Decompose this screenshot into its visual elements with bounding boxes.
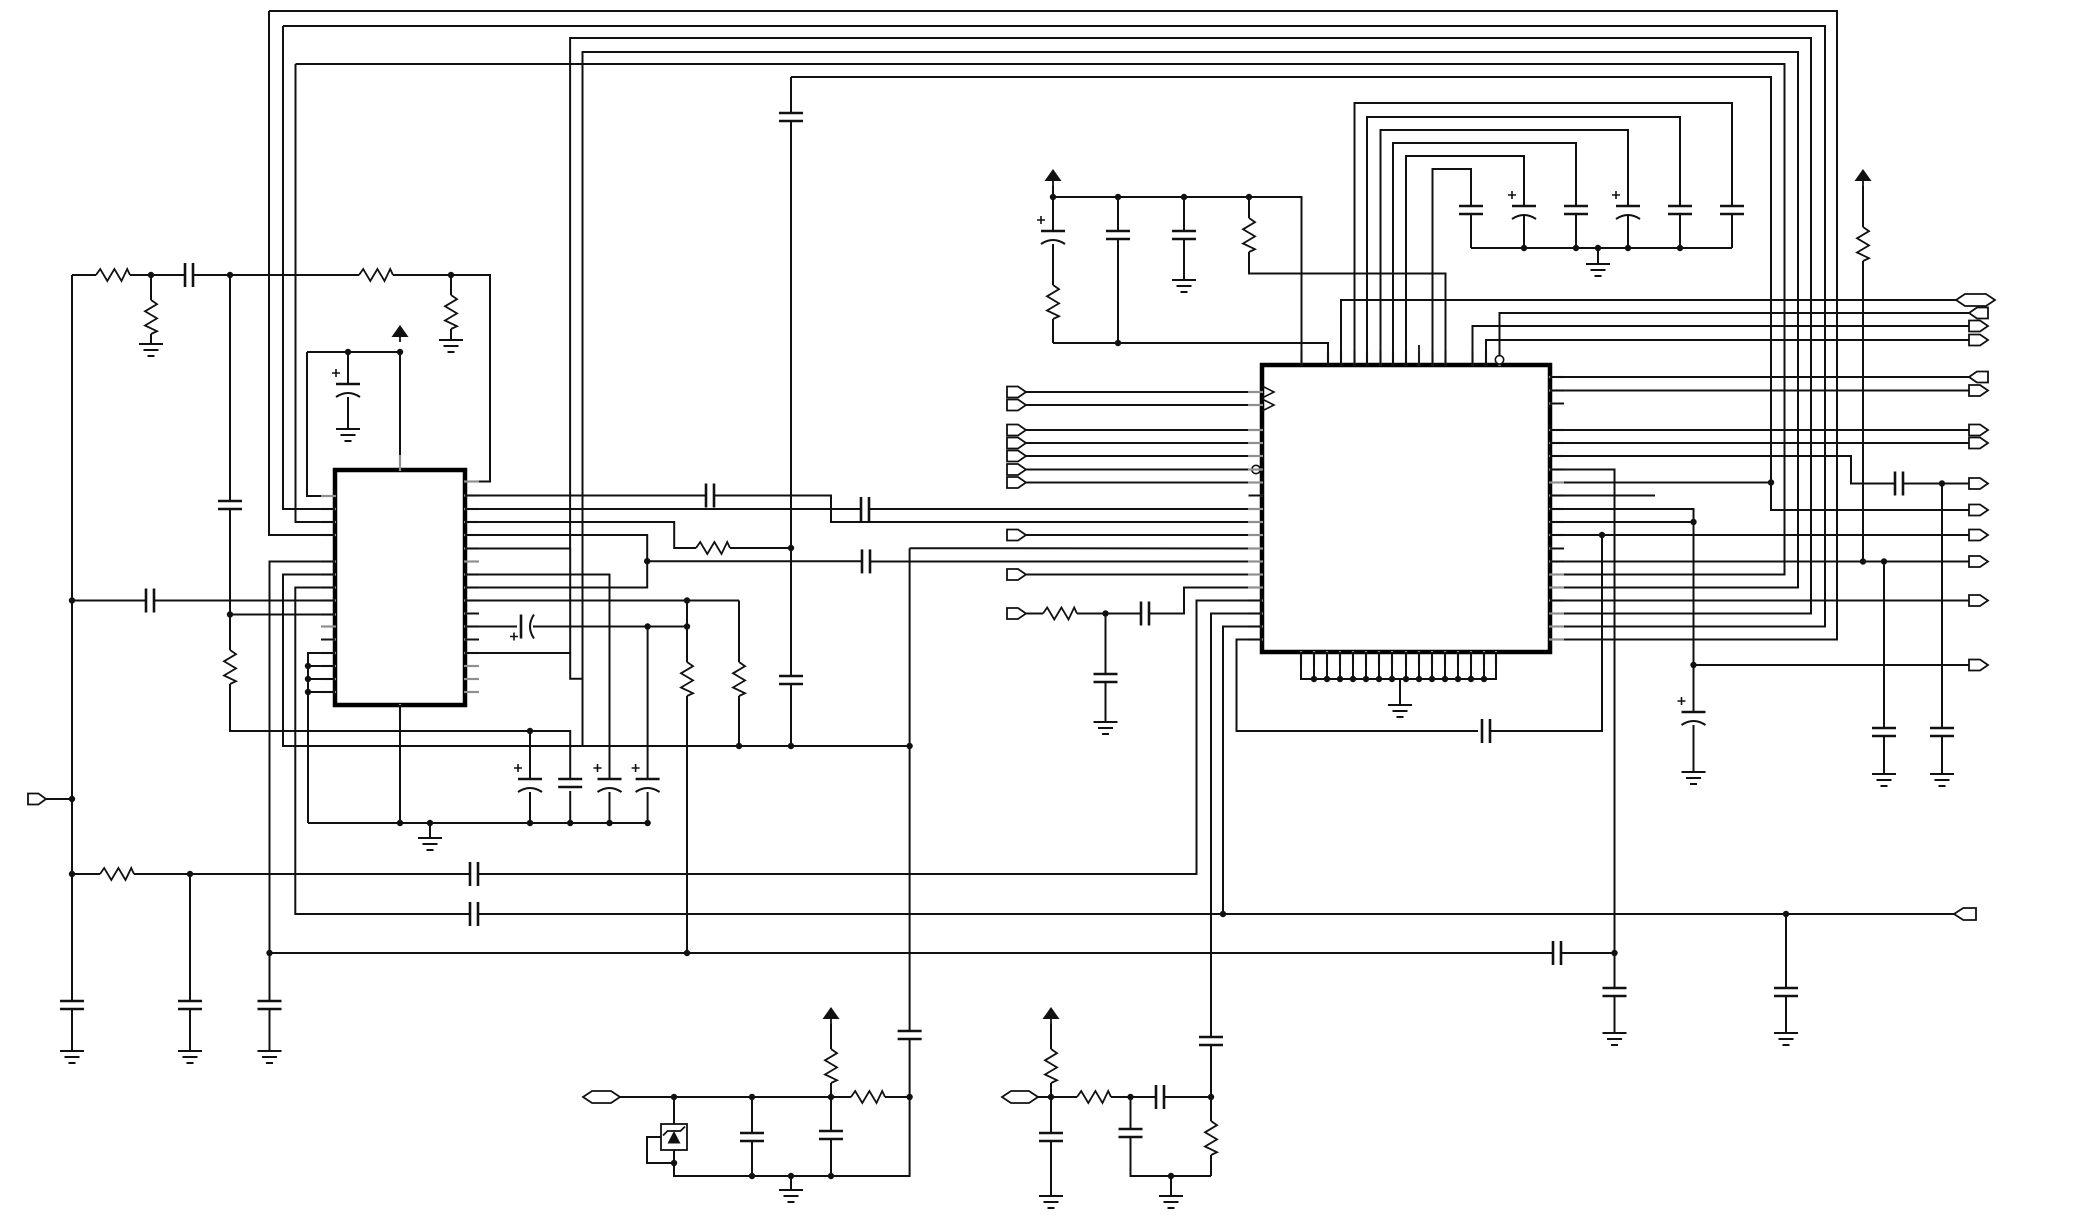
- junction J_capraw1576: [1573, 245, 1579, 251]
- pin stub U2 bottom pin 1458: [1457, 651, 1459, 665]
- wire bus5 left leg: [296, 64, 336, 522]
- wire R15 low: [830, 1083, 832, 1097]
- pin stub U2 bottom pin 1406: [1405, 651, 1407, 665]
- IC U2: [1262, 365, 1550, 652]
- wire C23 to R: [1052, 244, 1054, 285]
- port PB: [1002, 1091, 1038, 1103]
- wire R13 low: [1862, 261, 1864, 562]
- ground G1: [139, 343, 163, 345]
- junction J39: [1181, 194, 1187, 200]
- junction J45: [1690, 662, 1696, 668]
- wire U2 bottom pin 1353 wire: [1352, 652, 1354, 679]
- capacitor C42: [898, 1030, 922, 1033]
- wire U1 right 535-587 chain: [465, 535, 647, 588]
- wire nest5: [1406, 156, 1524, 366]
- capacitor C30: [1668, 205, 1692, 208]
- junction J34: [1783, 911, 1789, 917]
- capacitor C33: [1481, 719, 1484, 743]
- ground G11: [1388, 704, 1412, 706]
- wire clusterB wire: [1038, 1096, 1077, 1098]
- junction J_capraw1524: [1521, 245, 1527, 251]
- wire tvs bottom lead: [674, 1097, 910, 1176]
- junction JA4: [906, 1094, 912, 1100]
- wire R3 lead: [150, 275, 152, 300]
- capacitor C18: [178, 1000, 202, 1003]
- junction J29: [684, 623, 690, 629]
- wire capB1 gnd lead: [1050, 1141, 1052, 1196]
- junction JA7: [828, 1173, 834, 1179]
- junction J1: [148, 272, 154, 278]
- pin stub U2 top pin 1406: [1405, 351, 1407, 366]
- wire C7 bot: [529, 792, 531, 823]
- ground G12: [1603, 1032, 1627, 1034]
- pin stub U2 top pin 1367: [1366, 351, 1368, 366]
- ground G19: [1159, 1195, 1183, 1197]
- pin stub U2 bottom pin 1327: [1326, 651, 1328, 665]
- wire x1884 chain: [1883, 562, 1885, 729]
- wire cap1576 bottom lead: [1575, 214, 1577, 248]
- pin stub U2 bottom pin 1484: [1483, 651, 1485, 665]
- junction J14: [906, 743, 912, 749]
- pin stub U2 right pin 377: [1549, 376, 1564, 378]
- junction J22: [567, 820, 573, 826]
- wire U1 right 653 wire: [465, 652, 570, 654]
- junction JB2: [1127, 1094, 1133, 1100]
- pin stub U1 right pin 626.5: [464, 625, 479, 627]
- wire left rail x72: [71, 275, 73, 1001]
- capacitor C13: [861, 549, 864, 573]
- wire U2 bottom pin 1471 wire: [1470, 652, 1472, 679]
- junction Jb1458: [1455, 676, 1461, 682]
- wire C37 gnd lead: [1883, 736, 1885, 774]
- wire U2 gnd stub: [1399, 679, 1401, 705]
- wire pin1486 port340: [1486, 340, 1969, 366]
- wire y561 wire b: [870, 561, 1262, 563]
- wire U2 bottom pin 1340 wire: [1339, 652, 1341, 679]
- capacitor C34: [1894, 472, 1897, 496]
- junction JA5: [671, 1160, 677, 1166]
- pin stub U1 left pin 626.5: [321, 625, 336, 627]
- junction Jb1340: [1337, 676, 1343, 682]
- pin stub U2 left pin 522: [1248, 521, 1263, 523]
- power VCC V2: [1045, 169, 1062, 181]
- wire capB1 chain: [1050, 1097, 1052, 1133]
- pin stub U1 left pin 574.5: [321, 573, 336, 575]
- capacitor C10: [636, 778, 660, 781]
- wire U2 bottom pin 1419 wire: [1418, 652, 1420, 679]
- wire clusterA wire: [620, 1096, 851, 1098]
- pin stub U1 left pin 587.5: [321, 586, 336, 588]
- capacitor C38: [1930, 727, 1954, 730]
- wire U2 bottom pin 1392 wire: [1391, 652, 1393, 679]
- wire bus5: [296, 64, 1785, 575]
- pin stub U2 bottom pin 1353: [1352, 651, 1354, 665]
- pin stub U1 right pin 509: [464, 508, 479, 510]
- junction JB4: [1168, 1173, 1174, 1179]
- port P313: [1969, 308, 1988, 319]
- port P443: [1969, 438, 1988, 449]
- wire capB2 low: [1131, 1137, 1212, 1176]
- wire portC wire: [1026, 429, 1262, 431]
- capacitor C23: [1041, 230, 1065, 233]
- wire cap row rail: [1471, 247, 1732, 249]
- wire portE wire: [1026, 455, 1262, 457]
- capacitor C41: [819, 1130, 843, 1133]
- wire x570 mid: [570, 549, 582, 679]
- wire rail2: [1053, 343, 1328, 366]
- wire y874 wire b: [134, 873, 470, 875]
- wire U1 left 600 wire: [72, 600, 146, 602]
- wire C23 top: [1052, 197, 1054, 231]
- pin stub U1 left pin 600.5: [321, 599, 336, 601]
- wire x230 low: [230, 684, 570, 779]
- wire U2 bottom pin 1484 wire: [1483, 652, 1485, 679]
- wire U2 right 535 wire: [1550, 534, 1969, 536]
- wire capA1 chain: [751, 1097, 753, 1133]
- pin stub U1 left pin 639.5: [321, 638, 336, 640]
- wire vcc rail U2: [1052, 186, 1054, 197]
- junction Jb1327: [1324, 676, 1330, 682]
- wire U2 right 469 chain: [1550, 470, 1615, 989]
- capacitor C8: [558, 778, 582, 781]
- resistor R14: [851, 1091, 885, 1103]
- pin stub U2 top pin 1432.5: [1431, 351, 1433, 366]
- junction JA3: [828, 1094, 834, 1100]
- wire portH wire: [1026, 534, 1262, 536]
- wire cap1524 bottom lead: [1523, 214, 1525, 248]
- wire C35 gnd lead: [1614, 996, 1616, 1033]
- junction J40: [1246, 194, 1252, 200]
- junction J16: [305, 663, 311, 669]
- capacitor C29: [1616, 205, 1640, 208]
- ground G2: [439, 339, 463, 341]
- port PH: [1007, 530, 1026, 541]
- pin stub U2 top 1419 nc: [1418, 345, 1420, 366]
- pin stub U1 left pin 522: [321, 521, 336, 523]
- pin stub U2 right pin 561.5: [1549, 560, 1564, 562]
- pin stub U2 right pin 548.5: [1549, 547, 1564, 549]
- capacitor C4: [336, 383, 360, 386]
- capacitor C17: [469, 862, 472, 886]
- wire y914 wire: [478, 913, 1954, 915]
- pin stub U2 left pin 456: [1248, 455, 1263, 457]
- wire U2 right 600 wire: [1550, 600, 1969, 602]
- capacitor C3: [218, 500, 242, 503]
- ground G15: [1930, 773, 1954, 775]
- wire U2 548 feed: [910, 547, 1262, 549]
- wire U1 left 653 chain: [308, 653, 335, 823]
- wire C21 jog to U2 587: [1149, 588, 1262, 614]
- wire U2 right 443: [1550, 442, 1969, 444]
- wire nest3: [1381, 130, 1629, 366]
- pin stub U1 left pin 614.5: [321, 613, 336, 615]
- wire top-left main: [72, 274, 96, 276]
- pin stub U2 right pin 390.5: [1549, 389, 1564, 391]
- pin stub U1 right pin 548.5: [464, 547, 479, 549]
- wire C32 low: [1210, 1045, 1212, 1097]
- wire U2 bottom pin 1406 wire: [1405, 652, 1407, 679]
- wire U2 right 561 wire: [1550, 561, 1969, 563]
- capacitor C21: [1140, 602, 1143, 626]
- capacitor C2: [60, 1000, 84, 1003]
- pin stub U1 right pin 692: [464, 691, 479, 693]
- wire bus2: [283, 26, 1825, 627]
- junction JA8: [788, 1173, 794, 1179]
- pin stub U1 right pin 600.5: [464, 599, 479, 601]
- resistor R3v: [145, 300, 157, 334]
- resistor R15: [825, 1049, 837, 1083]
- junction J42: [1595, 245, 1601, 251]
- pin stub U1 left pin 509: [321, 508, 336, 510]
- pin stub U2 right 548 nc: [1550, 548, 1564, 550]
- pin stub U2 left pin 639.5: [1248, 638, 1263, 640]
- capacitor C39: [1774, 987, 1798, 990]
- ground G3: [60, 1050, 84, 1052]
- pin stub U1 right pin 535: [464, 534, 479, 536]
- junction J31: [1768, 479, 1774, 485]
- resistor R1: [96, 269, 130, 281]
- pin stub U2 left pin 509: [1248, 508, 1263, 510]
- wire H1 cap530 top: [529, 731, 531, 779]
- wire nest2: [1367, 117, 1680, 366]
- junction Jb1484: [1481, 676, 1487, 682]
- wire U1 right 600 wire: [465, 600, 739, 602]
- port P600: [1969, 595, 1988, 606]
- junction J44: [1939, 480, 1945, 486]
- wire U2 right 522 chain: [1550, 522, 1694, 712]
- pin stub U2 right 403 nc: [1550, 403, 1564, 405]
- capacitor C20: [1552, 941, 1555, 965]
- pin stub U2 bottom pin 1496: [1495, 651, 1497, 665]
- ground G13: [1682, 771, 1706, 773]
- wire R1-C1 link: [130, 274, 185, 276]
- wire R6 end: [730, 547, 791, 549]
- pin stub U2 left pin 392: [1248, 391, 1263, 393]
- port PD: [1007, 438, 1026, 449]
- ground G9: [1172, 279, 1196, 281]
- ground G7: [178, 1050, 202, 1052]
- pin stub U2 right pin 509: [1549, 508, 1564, 510]
- wire nest1: [1355, 103, 1733, 366]
- pin stub U1 right pin 574.5: [464, 573, 479, 575]
- port P340: [1969, 335, 1988, 346]
- port PF: [1007, 464, 1026, 475]
- pin stub U2 bottom pin 1392: [1391, 651, 1393, 665]
- wire U2 right 482 wire: [1550, 482, 1771, 484]
- input arrow U2 405: [1262, 399, 1274, 411]
- wire pin1341 port300: [1341, 300, 1956, 366]
- junction Jb1314: [1311, 676, 1317, 682]
- wire U1 left 561 chain: [270, 562, 336, 954]
- wire portI wire: [1026, 574, 1262, 576]
- wire R11 low: [1052, 319, 1054, 343]
- junction J_capraw1628: [1625, 245, 1631, 251]
- wire vcc rail U1: [307, 352, 400, 470]
- capacitor C15: [779, 112, 803, 115]
- pin stub U2 left 495 nc: [1249, 495, 1263, 497]
- port PG: [1007, 477, 1026, 488]
- junction JB3: [1208, 1094, 1214, 1100]
- junction Jb1366: [1363, 676, 1369, 682]
- resistor R17: [1045, 1049, 1057, 1083]
- pin stub U2 bottom pin 1301: [1300, 651, 1302, 665]
- wire R3 gnd lead: [150, 334, 152, 344]
- wire pin1499 port313: [1500, 313, 1970, 355]
- wire C22 gnd lead: [1105, 682, 1107, 722]
- wire C39 gnd lead: [1785, 996, 1787, 1033]
- wire R18 low: [1210, 1155, 1212, 1176]
- port PA: [1007, 387, 1026, 398]
- wire bus4: [583, 52, 1799, 746]
- wire x1942 chain: [1941, 484, 1943, 729]
- port PE: [1007, 451, 1026, 462]
- junction J3: [448, 272, 454, 278]
- wire y953 end: [1561, 952, 1615, 954]
- wire C24 low: [1117, 239, 1119, 343]
- pin stub U1 right pin 495.5: [464, 494, 479, 496]
- pin stub U1 left pin 496: [321, 495, 336, 497]
- junction J19: [397, 820, 403, 826]
- wire y874 wire: [72, 873, 100, 875]
- resistor R9: [100, 868, 134, 880]
- capacitor C40: [740, 1132, 764, 1135]
- pin stub U2 top pin 1393: [1392, 351, 1394, 366]
- junction J26: [644, 623, 650, 629]
- wire U2 bottom pin 1379 wire: [1378, 652, 1380, 679]
- wire V3 lead: [1862, 186, 1864, 227]
- power VCC V1: [392, 325, 409, 337]
- pin stub U1 right 613 nc: [465, 613, 479, 615]
- pin stub U2 right pin 403.5: [1549, 402, 1564, 404]
- capacitor C27: [1512, 205, 1536, 208]
- pin stub U2 bottom pin 1379: [1378, 651, 1380, 665]
- wire U2 right 390: [1550, 390, 1969, 392]
- port PA: [583, 1091, 620, 1103]
- power VCC V3: [1855, 169, 1872, 181]
- wire U1 right 495 wire: [465, 495, 706, 497]
- wire U1 right 522 chain: [465, 522, 696, 548]
- wire x791 mid: [790, 121, 792, 676]
- port P535: [1969, 530, 1988, 541]
- wire clusterB wire c: [1164, 1096, 1211, 1098]
- pin stub U1 right pin 481.5: [464, 480, 479, 482]
- resistor R18: [1205, 1121, 1217, 1155]
- wire gndA stub: [790, 1176, 792, 1190]
- junction J20: [427, 820, 433, 826]
- wire cap648 chain: [647, 627, 649, 780]
- capacitor C5: [258, 1000, 282, 1003]
- wire U2 right 495 wire: [1550, 495, 1655, 497]
- wire clusterB wire b: [1111, 1096, 1156, 1098]
- wire portB wire: [1026, 404, 1262, 406]
- pin stub U2 top pin 1354.5: [1353, 351, 1355, 366]
- wire C5 gnd lead: [269, 1009, 271, 1051]
- capacitor C37: [1872, 727, 1896, 730]
- wire U1 left 600 wire b: [154, 600, 335, 602]
- junction J21: [527, 820, 533, 826]
- wire x190 chain: [189, 874, 191, 1001]
- resistor R2: [359, 269, 393, 281]
- wire U1 left 574 chain: [283, 575, 910, 747]
- pin stub U2 left pin 587.5: [1248, 586, 1263, 588]
- pin stub U2 right pin 443: [1549, 442, 1564, 444]
- wire x230 mid: [229, 509, 231, 650]
- pin stub U2 left pin 430: [1248, 429, 1263, 431]
- pin stub U2 right pin 574.5: [1549, 573, 1564, 575]
- pin stub U1 left pin 666: [321, 665, 336, 667]
- pin stub U2 top pin 1486: [1485, 351, 1487, 366]
- junction JB1: [1048, 1094, 1054, 1100]
- pin stub U1 right pin 522: [464, 521, 479, 523]
- wire U1 left 692 wire: [308, 691, 335, 693]
- capacitor C11: [705, 484, 708, 508]
- junction J6: [69, 871, 75, 877]
- resistor R7: [681, 662, 693, 696]
- capacitor C16: [779, 675, 803, 678]
- wire U2 bottom pin 1327 wire: [1326, 652, 1328, 679]
- resistor R8: [733, 662, 745, 696]
- port P_613: [1007, 608, 1026, 619]
- wire C42 low: [909, 1039, 911, 1097]
- port P914: [1954, 908, 1976, 920]
- junction J35: [1611, 950, 1617, 956]
- port P300: [1956, 294, 1995, 306]
- wire vcc rail U2 h: [1053, 197, 1302, 366]
- wire x739 chain: [738, 601, 740, 663]
- wire R10 to cap: [1077, 613, 1141, 615]
- resistor R11: [1047, 285, 1059, 319]
- wire x269 cap lead: [269, 953, 271, 1001]
- pin stub U1 left pin 535: [321, 534, 336, 536]
- junction Jb1379: [1376, 676, 1382, 682]
- wire C36 gnd lead: [1693, 725, 1695, 772]
- junction Jb1392: [1389, 676, 1395, 682]
- resistor R16: [1077, 1091, 1111, 1103]
- wire x307 to pin496: [307, 352, 335, 496]
- wire clusterA wire b: [885, 1096, 910, 1098]
- pin stub U2 left pin 574.5: [1248, 573, 1263, 575]
- wire C38 gnd lead: [1941, 736, 1943, 774]
- junction J37: [1050, 194, 1056, 200]
- pin stub U2 top pin 1380.5: [1379, 351, 1381, 366]
- junction J46: [1860, 558, 1866, 564]
- pin stub U2 bottom pin 1314: [1313, 651, 1315, 665]
- wire C25 top: [1183, 197, 1185, 231]
- ground G18: [1039, 1195, 1063, 1197]
- wire R17 low: [1050, 1083, 1052, 1097]
- wire capA1 low: [751, 1141, 753, 1176]
- pin stub U2 bottom pin 1471: [1470, 651, 1472, 665]
- wire C25 gnd: [1183, 239, 1185, 280]
- ground G17: [779, 1189, 803, 1191]
- wire bus6: [791, 77, 1969, 510]
- pin stub U2 left pin 535: [1248, 534, 1263, 536]
- wire y953 wire: [270, 952, 1554, 954]
- wire gndB stub: [1170, 1176, 1172, 1196]
- ground G16: [1774, 1032, 1798, 1034]
- wire nest4: [1393, 143, 1576, 366]
- capacitor C44: [1039, 1132, 1063, 1135]
- port PC: [1007, 425, 1026, 436]
- pin stub U2 bottom pin 1340: [1339, 651, 1341, 665]
- wire port799 wire: [46, 798, 72, 800]
- resistor R13: [1857, 227, 1869, 261]
- junction J28: [684, 597, 690, 603]
- wire R4 lead: [450, 275, 452, 295]
- port P483: [1969, 478, 1988, 489]
- wire x909 chain: [909, 548, 911, 1031]
- junction J13: [788, 743, 794, 749]
